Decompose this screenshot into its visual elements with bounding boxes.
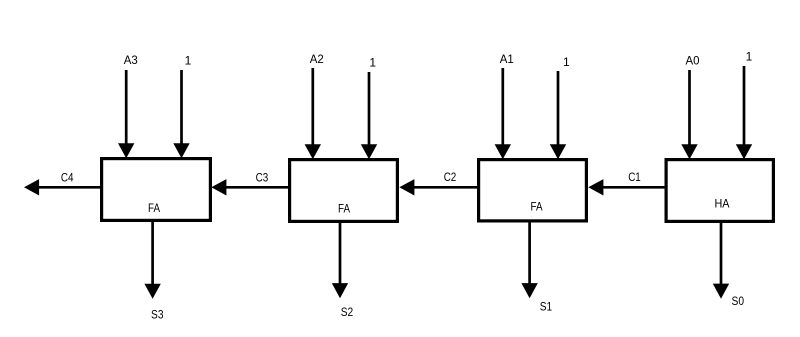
svg-text:FA: FA	[531, 199, 543, 213]
wire carry C3 arrow from U2 to U3	[211, 179, 289, 195]
svg-text:FA: FA	[148, 201, 160, 215]
svg-text:1: 1	[185, 53, 192, 67]
wire constant-1 arrow into U3	[173, 70, 189, 158]
svg-text:C3: C3	[256, 171, 269, 185]
full adder U3 (FA) box	[102, 159, 211, 221]
wire constant-1 arrow into U1	[550, 71, 566, 159]
wire input A3 arrow	[118, 70, 134, 158]
svg-text:S0: S0	[732, 294, 745, 308]
svg-text:S1: S1	[540, 299, 553, 313]
svg-text:A2: A2	[310, 52, 324, 66]
svg-text:C1: C1	[628, 170, 641, 184]
wire carry C1 arrow from U0 to U1	[588, 179, 666, 195]
wire sum S0 output arrow	[713, 222, 729, 299]
full adder U2 (FA) box	[290, 160, 398, 222]
svg-text:1: 1	[563, 55, 570, 69]
wire carry C2 arrow from U1 to U2	[399, 179, 478, 195]
wire input A1 arrow	[495, 68, 511, 159]
wire sum S2 output arrow	[332, 222, 348, 298]
svg-text:HA: HA	[715, 196, 730, 210]
svg-text:S3: S3	[151, 308, 164, 322]
wire input A2 arrow	[305, 68, 321, 159]
full adder U1 (FA) box	[479, 160, 587, 221]
wire carry-out C4 arrow	[24, 179, 101, 195]
wire constant-1 arrow into U0	[736, 66, 752, 159]
wire input A0 arrow	[681, 70, 697, 159]
svg-text:C4: C4	[61, 170, 74, 184]
svg-text:FA: FA	[338, 201, 350, 215]
wire sum S1 output arrow	[521, 222, 537, 298]
svg-text:A1: A1	[500, 52, 514, 66]
wire constant-1 arrow into U2	[361, 72, 377, 159]
svg-text:A0: A0	[686, 53, 700, 67]
svg-text:1: 1	[746, 49, 753, 63]
wire sum S3 output arrow	[144, 221, 160, 299]
svg-text:1: 1	[369, 55, 376, 69]
svg-text:S2: S2	[341, 305, 354, 319]
svg-text:C2: C2	[444, 170, 457, 184]
half adder U0 (HA) box	[666, 160, 773, 222]
svg-text:A3: A3	[124, 53, 138, 67]
